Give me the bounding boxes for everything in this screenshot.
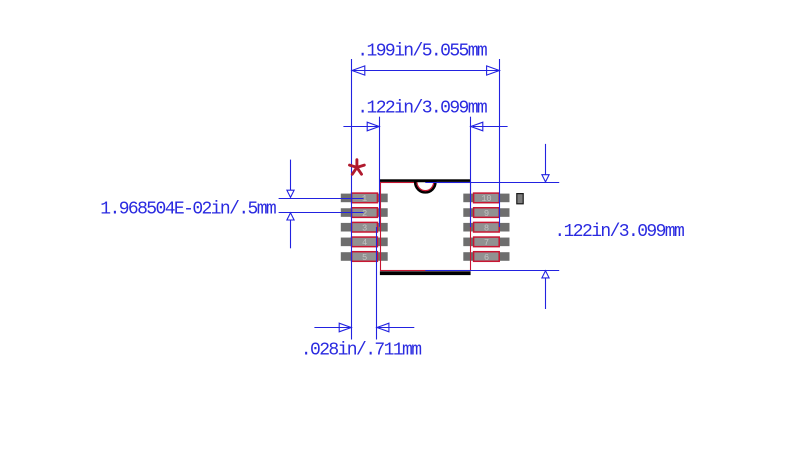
package top edge bar (380, 179, 471, 182)
extension line right (bottom dim) (376, 227, 378, 340)
svg-text:5: 5 (362, 253, 367, 263)
arrowhead pointing right at pad line (339, 323, 351, 332)
pin lead outline 3 (352, 222, 378, 232)
svg-text:.199in/5.055mm: .199in/5.055mm (357, 41, 487, 61)
pitch dim lower vertical (290, 220, 292, 248)
svg-text:7: 7 (484, 238, 489, 248)
right dim lower vertical (545, 278, 547, 309)
pad 1 (left copper pad) (341, 194, 388, 203)
pad 4 (341, 238, 388, 247)
pad 8 (463, 223, 509, 232)
pin number 10 (481, 194, 491, 204)
pin number 6 (484, 253, 489, 263)
pin-1 index notch (415, 182, 435, 192)
pin lead outline 6 (474, 252, 500, 262)
extension line left (shared, top+bottom dims) (351, 59, 353, 340)
pad 3 (341, 223, 388, 232)
pad 2 (341, 208, 388, 217)
pin lead outline 10 (474, 193, 500, 203)
tick line right (second dim) (470, 117, 472, 227)
right dim upper vertical (545, 144, 547, 175)
dimension text 1.968504E-02in/.5mm (100, 199, 276, 219)
svg-text:9: 9 (484, 209, 489, 219)
pad 5 (341, 252, 388, 261)
arrowhead pointing left at right tick (471, 122, 483, 131)
pin number 1 (362, 194, 367, 204)
arrowhead pointing left at ext line (377, 323, 389, 332)
pin number 8 (484, 224, 489, 234)
svg-text:1: 1 (362, 194, 367, 204)
right dim up arrowhead (542, 271, 549, 278)
package body outline U1 (381, 183, 471, 271)
dimension text .028in/.711mm (301, 341, 421, 361)
pin lead outline 2 (352, 208, 378, 218)
pin-1 asterisk (350, 160, 365, 175)
pitch ext line lower (279, 212, 364, 214)
right dim down arrowhead (542, 175, 549, 182)
pin number 7 (484, 238, 489, 248)
right dim ext line bottom (425, 270, 559, 272)
pad 10 (right copper pad) (463, 194, 509, 203)
pitch dim up arrowhead (287, 213, 294, 220)
dimension line .028in left segment (314, 327, 350, 329)
svg-text:.122in/3.099mm: .122in/3.099mm (357, 98, 487, 118)
dimension text .122in/3.099mm top (357, 98, 487, 118)
dimension line .199in (352, 70, 500, 72)
pin lead outline 8 (474, 222, 500, 232)
tick line left (second dim) (379, 117, 381, 227)
right dim ext line top (425, 182, 559, 184)
pin lead outline 1 (352, 193, 378, 203)
extension line right (top dim) (499, 59, 501, 227)
dimension text .199in/5.055mm (357, 41, 487, 61)
pitch dim down arrowhead (287, 190, 294, 197)
arrowhead right (points right) (487, 66, 500, 75)
svg-text:6: 6 (484, 253, 489, 263)
package bottom edge bar (380, 271, 471, 275)
pin number 4 (362, 238, 367, 248)
dimension line .122in right segment (473, 126, 508, 128)
pitch dim upper vertical (290, 160, 292, 191)
pin number 3 (362, 224, 367, 234)
pad 6 (463, 252, 509, 261)
dimension text .122in/3.099mm right (554, 222, 684, 242)
arrowhead pointing right at left tick (367, 122, 379, 131)
pad 7 (463, 238, 509, 247)
svg-text:.028in/.711mm: .028in/.711mm (301, 341, 421, 361)
pin number 5 (362, 253, 367, 263)
polarity marker (517, 194, 523, 204)
pin number 9 (484, 209, 489, 219)
pin number 2 (362, 209, 367, 219)
svg-text:2: 2 (362, 209, 367, 219)
pin lead outline 7 (474, 237, 500, 247)
svg-text:3: 3 (362, 224, 367, 234)
svg-text:8: 8 (484, 224, 489, 234)
arrowhead left (points left) (352, 66, 365, 75)
svg-text:10: 10 (481, 194, 491, 204)
pin lead outline 9 (474, 208, 500, 218)
svg-text:.122in/3.099mm: .122in/3.099mm (554, 222, 684, 242)
pitch ext line upper (279, 198, 364, 200)
svg-text:1.968504E-02in/.5mm: 1.968504E-02in/.5mm (100, 199, 276, 219)
dimension line .122in left segment (343, 126, 378, 128)
dimension line .028in right segment (378, 327, 414, 329)
svg-text:4: 4 (362, 238, 367, 248)
pin lead outline 4 (352, 237, 378, 247)
pin lead outline 5 (352, 252, 378, 262)
pad 9 (463, 208, 509, 217)
